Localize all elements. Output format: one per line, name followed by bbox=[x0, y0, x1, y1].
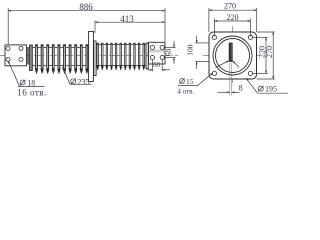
corner holes bbox=[212, 35, 252, 75]
dimension 100 left bbox=[195, 36, 209, 70]
dimension 8 bottom bbox=[218, 63, 240, 96]
dimension 220 right vertical bbox=[252, 37, 268, 73]
dimension 413 bbox=[95, 20, 165, 33]
dimension 60 vertical (right pad) bbox=[164, 41, 176, 64]
right end fitting bbox=[146, 43, 148, 69]
svg-text:886: 886 bbox=[79, 2, 93, 12]
dimension 270 top bbox=[209, 8, 257, 32]
svg-text:195: 195 bbox=[265, 85, 277, 94]
right terminal pad bbox=[149, 42, 166, 64]
slot pointer diagonals bbox=[216, 61, 240, 68]
small sheds right section bbox=[96, 43, 145, 71]
leader and label D195 bbox=[246, 78, 288, 93]
dimension 270 right vertical bbox=[257, 32, 275, 79]
svg-text:60: 60 bbox=[164, 49, 173, 57]
sheath right section bbox=[96, 45, 146, 66]
circles D195 and boss bbox=[213, 36, 252, 75]
dimension 220 top bbox=[214, 19, 250, 37]
conductor lines in pad bbox=[149, 51, 166, 52]
holes of left plate bbox=[6, 46, 23, 61]
dimension 886 bbox=[8, 8, 165, 44]
centerlines right view bbox=[203, 55, 262, 57]
svg-text:8: 8 bbox=[239, 84, 243, 93]
svg-text:60: 60 bbox=[153, 61, 161, 69]
leader and label D235 bbox=[63, 67, 92, 85]
svg-text:220: 220 bbox=[227, 13, 239, 22]
svg-text:16 отв.: 16 отв. bbox=[17, 87, 47, 97]
square flange bbox=[209, 32, 257, 79]
sheath left section bbox=[32, 48, 89, 66]
leader and label D15 4 holes bbox=[178, 73, 213, 86]
left end fitting bbox=[30, 45, 33, 71]
svg-text:18: 18 bbox=[27, 78, 35, 87]
svg-text:235: 235 bbox=[77, 77, 89, 86]
svg-text:4 отв.: 4 отв. bbox=[177, 88, 194, 96]
centerline main view bbox=[0, 55, 178, 57]
svg-text:413: 413 bbox=[120, 14, 134, 24]
big sheds left section bbox=[35, 44, 89, 74]
svg-text:15: 15 bbox=[186, 77, 194, 86]
central slot 8x100 bbox=[229, 43, 232, 62]
middle mounting flange bbox=[89, 32, 97, 82]
washer at plate bbox=[27, 47, 28, 65]
dimension 60 horizontal (right pad) bbox=[147, 60, 171, 72]
svg-text:270: 270 bbox=[265, 46, 274, 58]
svg-text:270: 270 bbox=[224, 2, 236, 11]
left terminal plate bbox=[5, 45, 27, 66]
leader and label D18 16 holes bbox=[8, 61, 44, 87]
svg-text:100: 100 bbox=[186, 44, 195, 56]
holes of right pad bbox=[150, 45, 164, 59]
